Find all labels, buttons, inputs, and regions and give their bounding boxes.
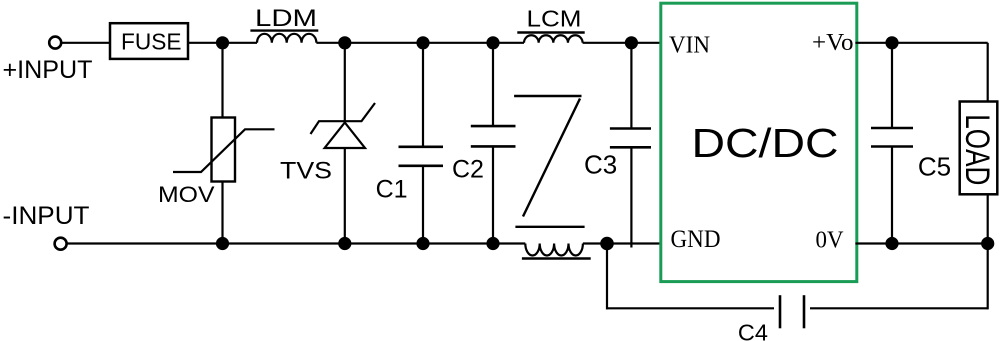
node: C3 top junction [625, 36, 638, 49]
+INPUT terminal [49, 37, 61, 49]
wire: LCM to VIN pin [583, 42, 660, 44]
svg-text:C3: C3 [584, 149, 617, 179]
wire: drop to LOAD top [987, 43, 989, 102]
diode TVS triangle [325, 123, 365, 149]
varistor MOV diagonal stroke [173, 129, 275, 172]
wire: LCM to GND pin [583, 242, 660, 244]
varistor MOV body [212, 118, 236, 182]
LCM bottom underline [522, 257, 591, 259]
node: C1 top junction [416, 36, 429, 49]
node: C1 bottom junction [416, 237, 429, 250]
wire: +input terminal to fuse [62, 42, 111, 44]
node: C5 top junction [885, 36, 898, 49]
node: MOV top junction [216, 36, 229, 49]
wire: C4 right rise [987, 244, 989, 310]
capacitor C3 bottom plate [610, 146, 651, 149]
svg-text:C1: C1 [376, 176, 408, 204]
capacitor C2 top plate [471, 125, 516, 128]
svg-text:MOV: MOV [158, 182, 215, 207]
node: TVS bottom junction [338, 237, 351, 250]
capacitor C3 top plate [610, 127, 651, 130]
DC/DC converter box [661, 3, 857, 281]
choke core bar bottom [515, 226, 584, 228]
svg-text:FUSE: FUSE [121, 29, 182, 55]
capacitor C1 top plate [399, 146, 444, 149]
svg-text:LCM: LCM [527, 6, 582, 32]
wire: C5 upper lead [891, 43, 893, 128]
wire: TVS branch lower [344, 148, 346, 244]
wire: C5 lower lead [891, 147, 893, 244]
wire: 0V rail [855, 242, 987, 244]
wire: fuse to LDM [188, 42, 257, 44]
LCM underline [517, 31, 584, 33]
capacitor C2 bottom plate [471, 145, 516, 148]
svg-text:0V: 0V [816, 228, 845, 254]
fuse body [110, 23, 188, 59]
wire: C4 left run [606, 307, 774, 309]
svg-text:C2: C2 [452, 156, 484, 184]
wire: MOV branch lower [221, 182, 223, 244]
svg-text:DC/DC: DC/DC [692, 120, 839, 166]
svg-text:C4: C4 [738, 320, 768, 341]
inductor LCM bottom winding [525, 244, 583, 256]
svg-text:+INPUT: +INPUT [3, 56, 93, 84]
wire: C2 upper lead [492, 43, 494, 126]
wire: bottom rail, -input to LCM [67, 242, 525, 244]
node: LOAD bottom junction [981, 237, 994, 250]
wire: LDM to LCM [316, 42, 524, 44]
choke core bar top [514, 95, 581, 97]
inductor LDM [257, 34, 316, 43]
inductor LCM top winding [524, 35, 583, 43]
node: C2 top junction [486, 36, 499, 49]
capacitor C4 left plate [779, 295, 782, 328]
svg-text:+Vo: +Vo [812, 30, 854, 56]
LDM underline [250, 29, 318, 31]
wire: C4 right run [810, 307, 988, 309]
-INPUT terminal [55, 238, 67, 250]
wire: C2 lower lead [492, 146, 494, 243]
svg-text:VIN: VIN [669, 32, 710, 58]
wire: TVS branch upper [344, 43, 346, 121]
node: MOV bottom junction [216, 237, 229, 250]
wire: MOV branch upper [221, 43, 223, 118]
capacitor C5 top plate [871, 127, 913, 130]
node: C2 bottom junction [486, 237, 499, 250]
capacitor C4 right plate [803, 295, 806, 328]
wire: LOAD bottom lead [987, 194, 989, 243]
wire: C1 lower lead [422, 166, 424, 244]
node: TVS top junction [338, 36, 351, 49]
wire: C4 left drop [606, 244, 608, 310]
node: C4 tap junction [600, 237, 614, 251]
wire: C3 lower lead [630, 147, 632, 247]
capacitor C1 bottom plate [399, 165, 444, 168]
wire: C3 upper lead [630, 43, 632, 129]
choke core diagonal [523, 99, 580, 217]
svg-text:-INPUT: -INPUT [3, 202, 90, 230]
wire: +Vo rail [855, 42, 987, 44]
wire: C1 upper lead [422, 43, 424, 147]
svg-text:C5: C5 [918, 151, 951, 181]
svg-text:GND: GND [671, 226, 721, 253]
diode TVS cathode bar [311, 103, 376, 134]
svg-text:LDM: LDM [255, 5, 317, 32]
node: C5 bottom junction [885, 237, 898, 250]
svg-text:LOAD: LOAD [958, 114, 996, 185]
svg-text:TVS: TVS [280, 157, 332, 184]
load resistor box [960, 102, 998, 195]
capacitor C5 bottom plate [871, 145, 913, 148]
